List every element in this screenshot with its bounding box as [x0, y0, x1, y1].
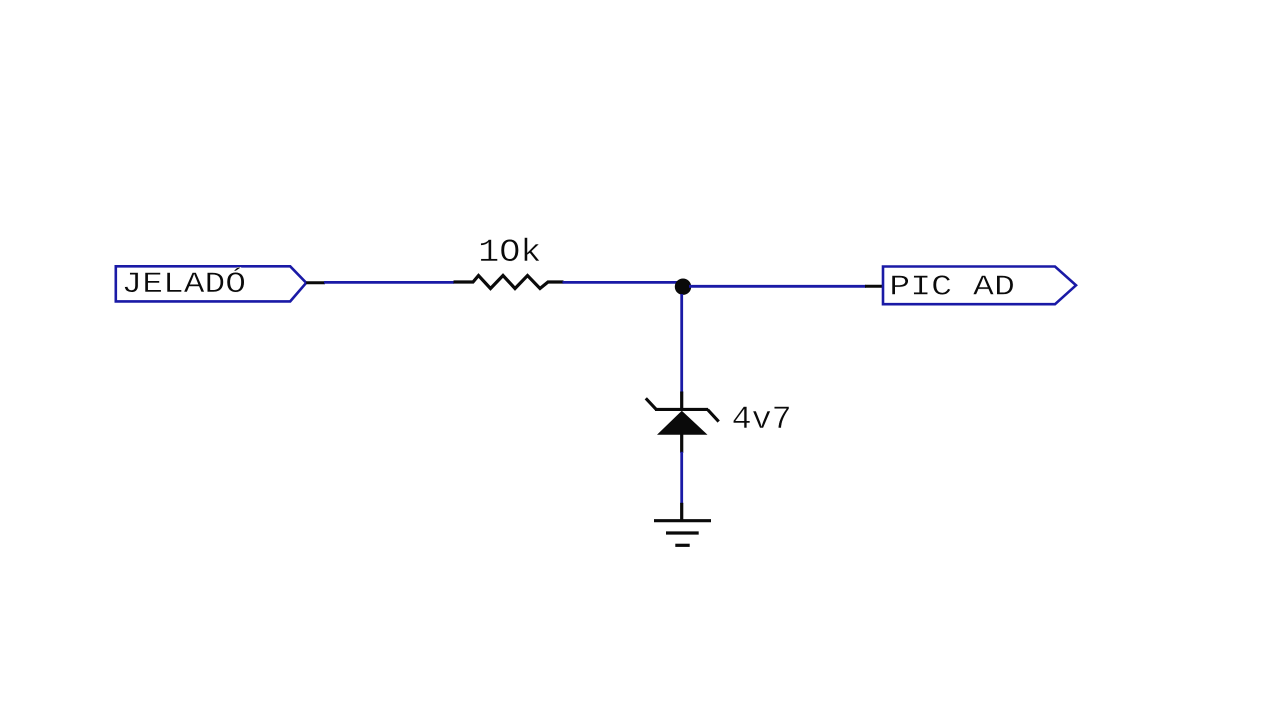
svg-text:JELADÓ: JELADÓ — [122, 267, 247, 301]
svg-text:PIC AD: PIC AD — [889, 270, 1015, 303]
svg-text:1Ok: 1Ok — [478, 235, 541, 271]
svg-text:4v7: 4v7 — [732, 401, 792, 437]
